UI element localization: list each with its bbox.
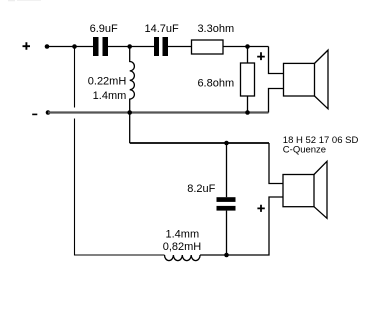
wire tweeter + lead (269, 47, 284, 74)
junction dot C3 bottom (224, 253, 229, 258)
capacitor C3 8.2uF (217, 197, 236, 202)
junction dot node B (245, 44, 250, 49)
wire C1 to C2 (108, 46, 154, 48)
capacitor C1 6.9uF (93, 37, 99, 56)
junction dot L1 bottom (127, 110, 132, 115)
junction dot node A (127, 44, 132, 49)
wire R1 to node B (223, 46, 269, 48)
wire woofer - branch vertical (129, 113, 131, 144)
svg-text:6.9uF: 6.9uF (90, 23, 118, 35)
speaker woofer (283, 161, 327, 218)
node - input terminal (32, 113, 37, 115)
svg-text:6.8ohm: 6.8ohm (197, 77, 234, 89)
resistor R2 6.8ohm (241, 63, 255, 96)
wire C3 upper lead (226, 143, 228, 197)
resistor R1 3.3ohm (192, 40, 224, 54)
wire top rail input to C1 (47, 46, 93, 48)
svg-text:0.22mH: 0.22mH (88, 75, 127, 87)
wire C3 lower lead (226, 211, 228, 255)
svg-text:8.2uF: 8.2uF (187, 183, 215, 195)
wire tweeter - lead (269, 89, 284, 113)
junction dot woofer branch tap (72, 44, 77, 49)
wire L2 to woofer + terminal (200, 197, 283, 255)
junction dot input - (46, 110, 51, 115)
wire woofer - branch horizontal (130, 142, 269, 144)
wire R2 top lead (247, 47, 249, 64)
svg-text:0,82mH: 0,82mH (163, 241, 202, 253)
wire woofer + branch upper segment (74, 47, 76, 108)
faint top edge artifact (8, 0, 15, 1)
svg-text:C-Quenze: C-Quenze (283, 145, 326, 156)
wire - rail (48, 111, 269, 113)
speaker tweeter (284, 50, 329, 109)
inductor L1 0.22mH (130, 47, 135, 113)
capacitor C2 14.7uF (154, 37, 159, 56)
wire C2 to R1 (168, 46, 192, 48)
svg-text:1.4mm: 1.4mm (93, 90, 127, 102)
wire woofer + branch lower segment (75, 119, 165, 256)
junction dot C3 top (224, 141, 229, 146)
svg-text:14.7uF: 14.7uF (144, 23, 179, 35)
wire R2 bottom lead (247, 96, 249, 113)
junction dot input + (45, 44, 50, 49)
inductor L2 0.82mH (165, 255, 201, 261)
node + input terminal (23, 42, 31, 50)
svg-text:1.4mm: 1.4mm (165, 228, 199, 240)
wire woofer - vertical to top terminal (269, 143, 283, 184)
svg-text:3.3ohm: 3.3ohm (197, 23, 234, 35)
label woofer + polarity (257, 205, 264, 212)
junction dot R2 bottom (245, 110, 250, 115)
label tweeter + polarity (257, 52, 265, 60)
